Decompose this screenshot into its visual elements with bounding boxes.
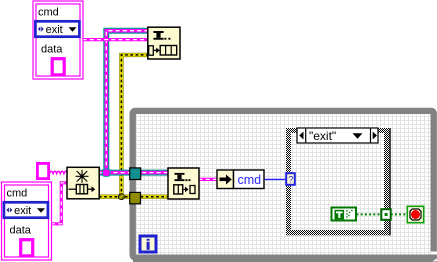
svg-text:cmd: cmd: [38, 7, 59, 19]
Dequeue Element node U3: [168, 168, 199, 199]
cluster element wire: Dequeue out to Unbundle: [199, 178, 218, 181]
Unbundle By Name field "cmd": [234, 170, 265, 189]
cluster element-type wire: bottom cluster to Obtain Queue: [51, 183, 68, 224]
while loop conditional (stop) terminal: [407, 206, 423, 222]
svg-text:"exit": "exit": [309, 129, 336, 143]
svg-text:data: data: [10, 225, 32, 237]
cluster constant K1 (top: cmd/exit/data): [33, 1, 83, 79]
case selector label "exit": [297, 128, 378, 143]
loop tunnel: error (olive): [130, 192, 141, 203]
error wire branch up to Enqueue error-in: [121, 55, 148, 197]
cluster constant K2 (bottom: cmd/exit/data): [2, 182, 52, 260]
Enqueue Element node U2: [148, 27, 180, 59]
while loop iteration terminal i: [140, 236, 156, 252]
queue refnum wire: Obtain Queue out to Dequeue in (through loop tunnel): [99, 170, 168, 176]
Unbundle By Name node U4 (arrow box): [217, 170, 234, 189]
case selector tunnel "?": [286, 173, 295, 185]
svg-text:cmd: cmd: [238, 173, 262, 187]
svg-text:cmd: cmd: [7, 188, 28, 200]
case structure C1 border: [286, 128, 391, 235]
boolean wire: T constant to case tunnel to loop condition: [357, 213, 408, 215]
blue enum wire: Unbundle to case selector: [264, 178, 287, 180]
svg-text:data: data: [41, 44, 63, 56]
loop tunnel: queue refnum (teal): [130, 168, 141, 180]
while loop W1 gridded interior: [136, 114, 431, 255]
error wire: Obtain Queue error-out to Dequeue error-in (through loop tunnel): [99, 194, 168, 198]
queue refnum wire branch up to Enqueue: [106, 31, 148, 173]
boolean constant TRUE B1: [332, 208, 357, 221]
Obtain Queue node U1: [67, 167, 99, 199]
error wire junction dot: [118, 194, 124, 200]
string name wire (coiled) into Obtain Queue: [50, 171, 68, 173]
svg-text:?: ?: [288, 174, 293, 185]
cluster element wire: top cluster to Enqueue element-in: [83, 38, 149, 41]
string constant S1 (queue name): [37, 163, 48, 178]
while loop W1 border: [133, 111, 437, 262]
svg-text:exit: exit: [46, 24, 63, 36]
queue wire junction blob: [103, 169, 110, 176]
svg-text:exit: exit: [14, 205, 31, 217]
case tunnel: boolean (green): [381, 209, 390, 220]
